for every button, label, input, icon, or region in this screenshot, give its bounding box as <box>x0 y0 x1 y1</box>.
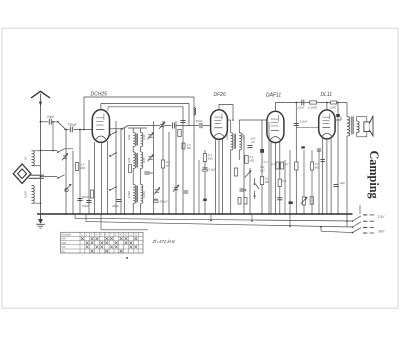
svg-text:0,050: 0,050 <box>241 133 245 140</box>
svg-text:3,0nF: 3,0nF <box>300 120 308 124</box>
svg-text:pF: pF <box>251 140 256 144</box>
svg-text:Zf=472 kHz: Zf=472 kHz <box>152 239 176 244</box>
svg-text:0,2: 0,2 <box>264 160 268 164</box>
svg-text:DL11: DL11 <box>321 92 333 98</box>
svg-text:0,020: 0,020 <box>127 191 131 198</box>
svg-text:10pF: 10pF <box>47 115 55 119</box>
svg-text:0,05: 0,05 <box>127 157 131 163</box>
svg-text:0,02: 0,02 <box>127 134 131 140</box>
svg-text:0,2: 0,2 <box>285 162 289 166</box>
svg-text:DF26: DF26 <box>214 92 226 98</box>
svg-text:4μF: 4μF <box>340 181 345 185</box>
svg-text:KW: KW <box>62 237 67 241</box>
svg-text:Ta: Ta <box>253 194 257 198</box>
svg-text:90V: 90V <box>379 230 386 234</box>
svg-text:LW: LW <box>62 245 66 249</box>
svg-text:MW: MW <box>62 241 67 245</box>
svg-text:1,5V: 1,5V <box>378 215 386 219</box>
svg-text:MΩ: MΩ <box>81 166 86 170</box>
svg-text:DAF11: DAF11 <box>266 93 281 99</box>
svg-text:0,2μF: 0,2μF <box>209 168 217 172</box>
svg-text:30pF: 30pF <box>112 204 119 208</box>
svg-text:Camping: Camping <box>367 151 381 199</box>
svg-text:0,02: 0,02 <box>142 134 146 140</box>
svg-text:05: 05 <box>24 156 28 160</box>
svg-text:750pF: 750pF <box>68 123 78 127</box>
svg-text:DCH25: DCH25 <box>91 91 108 97</box>
svg-text:22μF: 22μF <box>297 105 305 109</box>
svg-text:0,1MΩ: 0,1MΩ <box>308 105 318 109</box>
svg-text:MΩ: MΩ <box>265 180 269 184</box>
svg-text:Schalter: Schalter <box>62 233 72 237</box>
svg-text:0,1: 0,1 <box>283 179 287 183</box>
svg-text:50μF: 50μF <box>196 119 203 123</box>
svg-text:Ph: Ph <box>62 249 66 253</box>
svg-text:0,050: 0,050 <box>24 191 28 198</box>
svg-text:0,020: 0,020 <box>225 133 229 140</box>
svg-text:500: 500 <box>149 171 154 175</box>
svg-text:0,050: 0,050 <box>142 191 146 198</box>
svg-text:0,05: 0,05 <box>142 157 146 163</box>
svg-text:0,1: 0,1 <box>272 162 276 166</box>
svg-text:150μF: 150μF <box>160 200 168 204</box>
svg-text:MΩ: MΩ <box>187 146 191 150</box>
svg-text:50pF: 50pF <box>82 204 89 208</box>
svg-text:50pF: 50pF <box>82 195 89 199</box>
svg-text:1MΩ: 1MΩ <box>330 105 337 109</box>
